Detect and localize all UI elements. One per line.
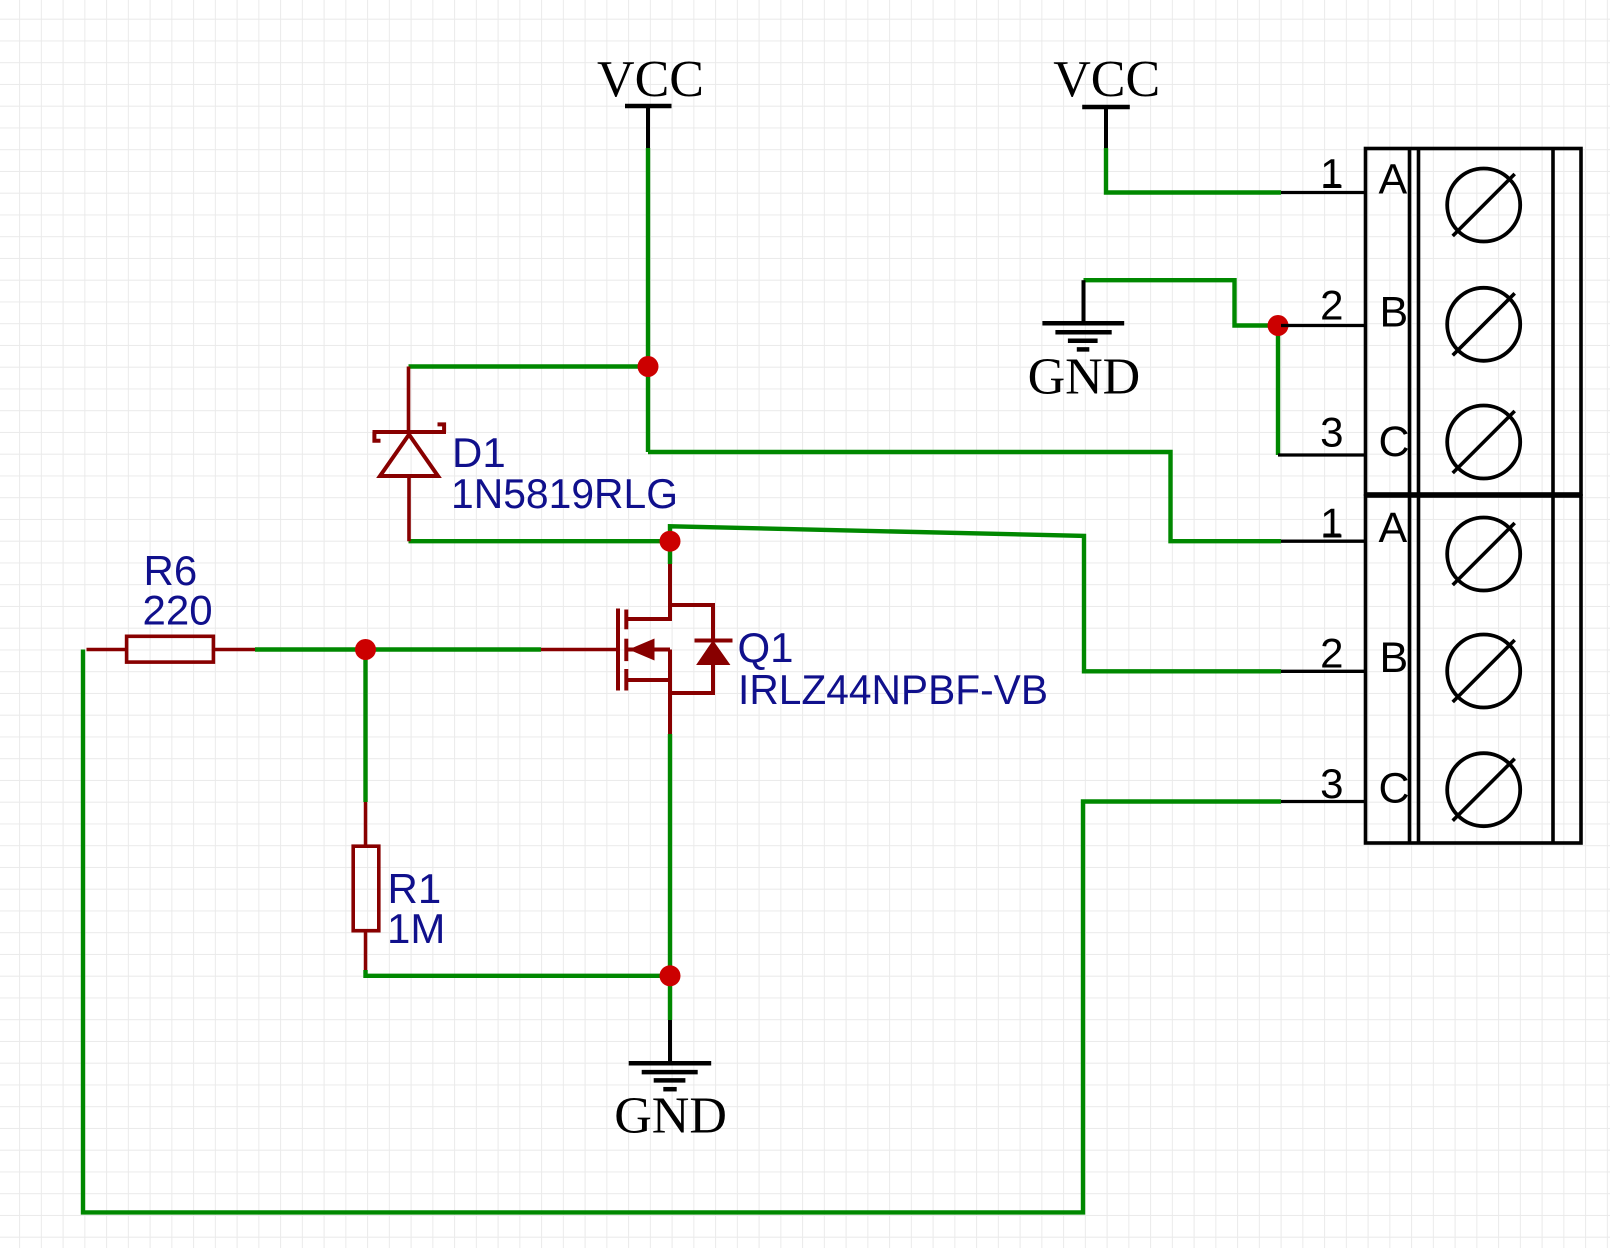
connector body (lower) xyxy=(1366,496,1582,843)
svg-text:B: B xyxy=(1380,288,1409,336)
transistor Q1 body diode xyxy=(670,605,713,641)
svg-text:Q1: Q1 xyxy=(738,624,794,671)
transistor Q1 body diode triangle xyxy=(698,642,729,664)
svg-text:1: 1 xyxy=(1320,500,1343,547)
junction dot at VCC/D1 cathode node xyxy=(638,356,659,377)
wire VCC1 to lower connector pin 1 xyxy=(648,452,1281,541)
diode D1 anode lead xyxy=(407,476,411,541)
svg-text:2: 2 xyxy=(1320,630,1343,677)
wire drain node stub down xyxy=(668,541,672,564)
resistor R1 body xyxy=(353,846,379,931)
svg-text:A: A xyxy=(1379,155,1408,203)
resistor R6 leads xyxy=(87,648,129,652)
resistor R1 leads xyxy=(364,802,368,847)
junction dot at gate/R6/R1 node xyxy=(355,639,376,660)
power flag VCC (left) xyxy=(625,106,672,148)
ground (right) xyxy=(1082,280,1086,321)
svg-text:220: 220 xyxy=(143,586,213,633)
wire gate node down to R1 xyxy=(363,650,367,803)
transistor Q1 channel segments xyxy=(624,610,628,630)
wire D1 anode to Q1 drain node xyxy=(409,539,671,543)
diode D1 triangle xyxy=(380,435,438,477)
svg-text:VCC: VCC xyxy=(1053,51,1160,108)
junction dot at GND/pin2 B node xyxy=(1268,315,1289,336)
svg-text:C: C xyxy=(1379,764,1410,812)
svg-text:2: 2 xyxy=(1320,282,1343,329)
svg-text:3: 3 xyxy=(1320,409,1343,456)
junction dot at D1 anode / Q1 drain node xyxy=(660,531,681,552)
svg-text:IRLZ44NPBF-VB: IRLZ44NPBF-VB xyxy=(738,666,1048,713)
svg-text:3: 3 xyxy=(1320,760,1343,807)
svg-text:A: A xyxy=(1379,504,1408,552)
svg-text:GND: GND xyxy=(614,1088,727,1145)
wire R1 bottom to source node xyxy=(366,970,671,976)
wire R6 to Q1 gate xyxy=(255,647,541,651)
wire junction B to upper connector pin 3 xyxy=(1276,326,1280,456)
svg-text:C: C xyxy=(1379,418,1410,466)
ground (bottom) xyxy=(668,1020,672,1061)
wire GND right to upper connector pin 2 xyxy=(1084,280,1282,325)
resistor R6 body xyxy=(127,636,214,662)
wire D1 cathode to junction xyxy=(409,364,649,368)
svg-text:GND: GND xyxy=(1028,349,1141,406)
transistor Q1 gate lead xyxy=(541,648,616,652)
wire VCC right to upper connector pin 1 xyxy=(1106,148,1281,193)
svg-text:1: 1 xyxy=(1320,150,1343,197)
svg-text:VCC: VCC xyxy=(597,51,704,108)
svg-text:1N5819RLG: 1N5819RLG xyxy=(451,470,678,517)
connector body (upper) xyxy=(1366,149,1582,495)
power flag VCC (right) xyxy=(1082,107,1130,148)
wire drain node to lower connector pin 2 (slanted) xyxy=(670,526,1281,671)
svg-text:B: B xyxy=(1380,634,1409,682)
pin leads (lower) xyxy=(1281,540,1366,543)
wire R6 left around bottom to lower connector pin 3 xyxy=(83,650,1281,1213)
screw terminal circles (lower) xyxy=(1447,518,1520,591)
diode D1 schottky bar xyxy=(373,430,447,434)
transistor Q1 source connect xyxy=(626,678,670,682)
junction dot at source/R1/GND node xyxy=(660,965,681,986)
wire Q1 source down to GND xyxy=(668,734,672,1020)
wire VCC left vertical xyxy=(646,148,650,452)
screw terminal circles (upper) xyxy=(1447,169,1520,242)
pin leads (upper) xyxy=(1281,191,1366,194)
diode D1 cathode lead xyxy=(407,367,411,433)
transistor Q1 arrow xyxy=(629,639,655,661)
svg-text:1M: 1M xyxy=(387,905,445,952)
transistor Q1 drain connect xyxy=(626,564,670,619)
transistor Q1 gate bar xyxy=(616,609,620,691)
